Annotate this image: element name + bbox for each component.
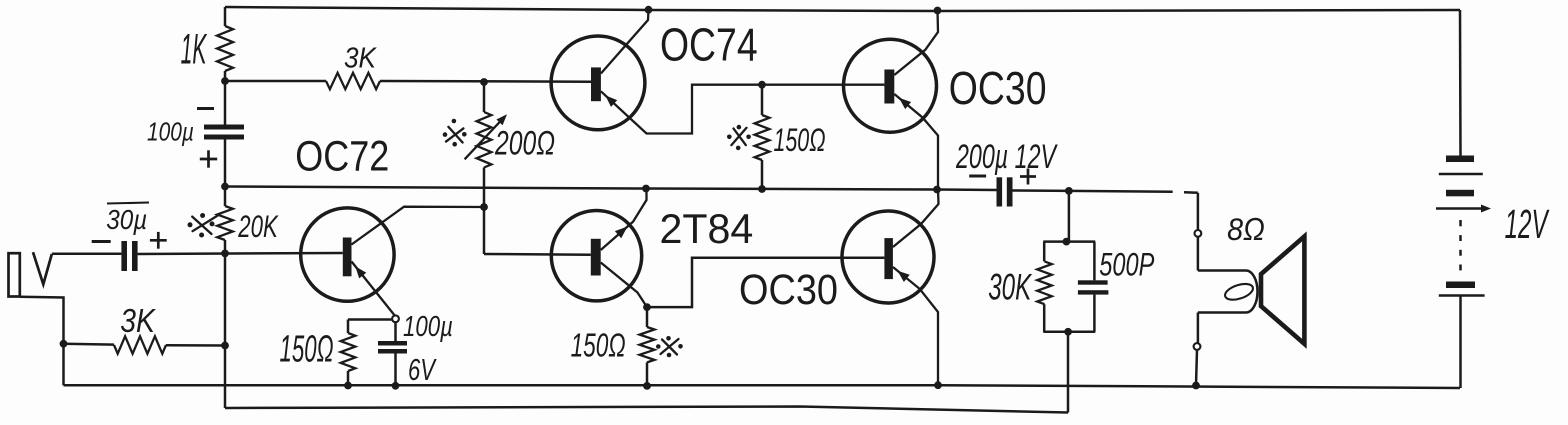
svg-text:OC74: OC74 xyxy=(660,19,758,71)
svg-text:30K: 30K xyxy=(988,266,1033,307)
svg-text:1K: 1K xyxy=(181,26,208,74)
svg-text:30µ: 30µ xyxy=(106,204,147,235)
svg-text:150Ω: 150Ω xyxy=(774,122,826,158)
svg-text:200Ω: 200Ω xyxy=(494,124,555,162)
svg-text:150Ω: 150Ω xyxy=(280,328,334,370)
svg-text:3K: 3K xyxy=(120,302,156,339)
svg-text:200µ 12V: 200µ 12V xyxy=(955,138,1058,176)
svg-text:8Ω: 8Ω xyxy=(1227,211,1265,247)
svg-text:12V: 12V xyxy=(1505,201,1550,247)
svg-text:OC30: OC30 xyxy=(739,266,838,314)
svg-text:500P: 500P xyxy=(1099,246,1154,282)
svg-text:OC30: OC30 xyxy=(949,62,1047,114)
svg-text:100µ: 100µ xyxy=(403,311,453,343)
svg-text:2T84: 2T84 xyxy=(660,205,754,252)
svg-text:150Ω: 150Ω xyxy=(571,327,626,364)
svg-text:OC72: OC72 xyxy=(295,133,389,181)
svg-text:6V: 6V xyxy=(408,353,437,387)
svg-text:20K: 20K xyxy=(238,208,280,244)
svg-text:100µ: 100µ xyxy=(147,117,194,147)
svg-text:3K: 3K xyxy=(344,43,377,75)
